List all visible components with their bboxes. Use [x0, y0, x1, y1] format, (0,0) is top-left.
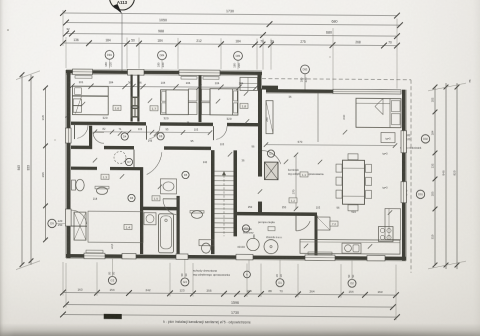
bedroom wing bottom wall (corridor top): [71, 122, 88, 126]
hall dashed circle (furniture): [114, 151, 126, 163]
living room dim line 370 vertical: [295, 155, 297, 209]
door circle D4: [121, 133, 128, 140]
top segment dimension row: [63, 43, 397, 46]
window symbol circle D84 (top, third): [234, 51, 243, 60]
bottom door circle G3: [181, 278, 189, 286]
heat pump room: dhw tank: [264, 240, 278, 254]
toilet room WC: [76, 179, 84, 191]
misc interior ticks: [81, 102, 85, 106]
radiator bottom wall kitchen: [308, 252, 332, 255]
bottom segment dimension row: [63, 293, 397, 296]
flue boxes in cavity wall: [131, 97, 139, 107]
back door gap: [236, 254, 253, 260]
leader line below A113 bubble: [121, 13, 123, 70]
radiator under window W1: [75, 76, 92, 79]
heat pump room: buffer tank: [247, 238, 259, 250]
toilet room walls: [89, 126, 92, 149]
door circle D5: [182, 171, 189, 178]
door leaf room 1.8: [213, 126, 215, 140]
door arc bathroom: [163, 199, 176, 215]
exterior wall left: [67, 70, 71, 258]
room label 1.2 tech: [289, 198, 297, 203]
exterior wall top (living wing): [266, 89, 333, 93]
left extension ticks top: [16, 71, 40, 80]
left wall window (small): [66, 128, 72, 143]
scale bar (black): [104, 314, 122, 319]
terrace window band top (living wing): [333, 89, 401, 94]
interior dimension line across bedrooms: [72, 86, 256, 87]
TV bench: [266, 101, 273, 134]
door arc toilet: [93, 131, 105, 133]
room label 1.7: [150, 106, 158, 111]
wardrobe room closet: [74, 212, 86, 240]
terrace window jamb line: [317, 93, 319, 142]
step wall between wings: [258, 72, 262, 90]
dining chairs right: [366, 164, 372, 172]
left door circle D9: [48, 219, 56, 227]
window W3 in top wall: [179, 70, 220, 76]
door arc living: [262, 151, 281, 164]
hall / bath walls middle: [110, 167, 142, 170]
roof overhang dashed line right: [410, 80, 412, 273]
kitchen counter right wall: [385, 209, 401, 240]
right window circle D92: [421, 135, 429, 143]
bottom door circle G2: [108, 276, 116, 284]
dimension line 988 (top row 3): [66, 34, 397, 37]
door circle D3: [242, 225, 249, 232]
bottom window circle Q1: [276, 279, 284, 287]
door circle D7: [125, 158, 132, 165]
stairs right wall: [234, 150, 238, 236]
dining table: [343, 160, 365, 204]
bathroom wall above tub: [143, 207, 179, 211]
exterior wall right: [402, 90, 406, 261]
kitchen sink: [342, 243, 361, 253]
door bottom (entrance): [122, 253, 136, 259]
chimney block in top wall: [128, 69, 145, 75]
coffee table: [381, 132, 395, 142]
bottom extension lines: [62, 262, 64, 296]
title bubble A113 (top, cut off): [110, 0, 135, 10]
exterior wall bottom: [66, 254, 406, 260]
bedroom 1.8 bed: [210, 89, 238, 115]
door circle D8: [157, 133, 164, 140]
roof overhang dashed line top of living wing: [262, 79, 411, 80]
room label 1.1 living: [300, 172, 308, 177]
hall washbasin cabinet: [161, 179, 177, 194]
toilet room sink: [97, 187, 108, 194]
radiator under window W3b: [203, 77, 219, 80]
exterior wall top (bedroom wing): [66, 70, 262, 75]
window bottom 1 (wardrobe room): [84, 253, 105, 259]
bedroom 1.6 bed: [72, 86, 108, 115]
bathroom washer: [144, 213, 156, 225]
corridor bottom wall: [71, 146, 89, 150]
door leaf room 1.7: [146, 126, 148, 140]
right overall dimension line 920: [456, 83, 458, 269]
living room bed/sofa: [356, 98, 401, 127]
window bottom 4: [367, 255, 385, 261]
window W1 in top wall: [73, 69, 93, 75]
window bottom 3 (kitchen): [305, 255, 335, 261]
left dimension line 833: [30, 75, 32, 265]
kitchen partition wall: [315, 215, 318, 255]
dimension line 1730 (top row 1): [63, 13, 397, 16]
window symbol circle D9H (top): [105, 50, 114, 59]
wall right of hall (to living): [258, 151, 262, 177]
room label 1.5 bath: [152, 196, 160, 201]
living room dim line 670: [266, 145, 395, 146]
room label 1.8: [240, 103, 248, 108]
bottom window circle O2: [348, 279, 356, 287]
partition wall between rooms 1.7 and 1.8: [199, 75, 202, 122]
radiator bottom wall 1: [86, 250, 103, 253]
door arc wardrobe room 1.4: [71, 210, 87, 224]
scanner specks: [7, 29, 9, 31]
right dimension line 846: [445, 83, 447, 269]
living room west wall: [258, 89, 262, 152]
technical room top wall: [237, 212, 317, 216]
partition cavity wall between rooms 1.6 and 1.7: [131, 75, 133, 122]
vent stack circle k2: [244, 271, 251, 278]
bathroom WC: [199, 240, 214, 246]
room 1.8 wardrobe on top wall: [240, 77, 258, 90]
window symbol circle D84 (top, second): [158, 51, 167, 60]
bathroom bathtub: [159, 214, 174, 253]
door leaf room 1.6: [74, 125, 76, 139]
wardrobe room label 1.4: [124, 224, 132, 229]
room label 7.2 kitchen: [330, 221, 338, 226]
room label 1.3 toilet: [101, 174, 109, 179]
radiator under window W3a: [181, 76, 197, 79]
left inner dimension line: [45, 88, 47, 240]
stairs left wall: [211, 150, 215, 254]
door arc hall main: [147, 152, 162, 175]
fireplace: [265, 162, 279, 180]
bedroom 1.6 wardrobe stack: [73, 99, 81, 106]
window right 2: [401, 182, 406, 203]
bottom overall dimension line 1730: [63, 315, 397, 318]
kitchen stove: [379, 226, 394, 241]
window symbol circle D93 (living room top): [301, 65, 310, 74]
bedroom 1.7 bed: [161, 90, 189, 115]
door circle D6: [128, 194, 135, 201]
interior dim texts row (corridor): [95, 131, 210, 134]
room label 1.6: [113, 105, 121, 110]
stairs treads: [215, 170, 234, 172]
wardrobe room outline: [88, 211, 143, 242]
kitchen counter along bottom: [300, 239, 400, 254]
dimension line 1050 (top row 2 left): [66, 23, 270, 25]
right window circle D91: [416, 190, 424, 198]
bedroom 1.7 nightstands: [188, 89, 197, 101]
kitchen fridge: [317, 217, 330, 230]
window bottom 2 (bath): [176, 254, 188, 259]
extension lines from top wall to dimension rows: [65, 37, 67, 68]
dimension line 680 (top row 2 right): [270, 24, 401, 25]
left wall door opening: [66, 209, 72, 226]
window right 1: [401, 131, 406, 153]
dining chairs left: [336, 164, 342, 172]
dining chairs ends: [348, 154, 358, 160]
bedroom 1.8 nightstands: [202, 89, 211, 101]
door circle D1: [267, 150, 274, 157]
door arc technical room: [296, 221, 310, 231]
small wall stub below living west wall: [258, 202, 262, 216]
bathroom sink: [192, 211, 203, 219]
bottom dimension line 1596: [66, 305, 393, 308]
left overall dimension line 845: [21, 75, 23, 265]
right inner segmented dimension line: [434, 87, 436, 265]
